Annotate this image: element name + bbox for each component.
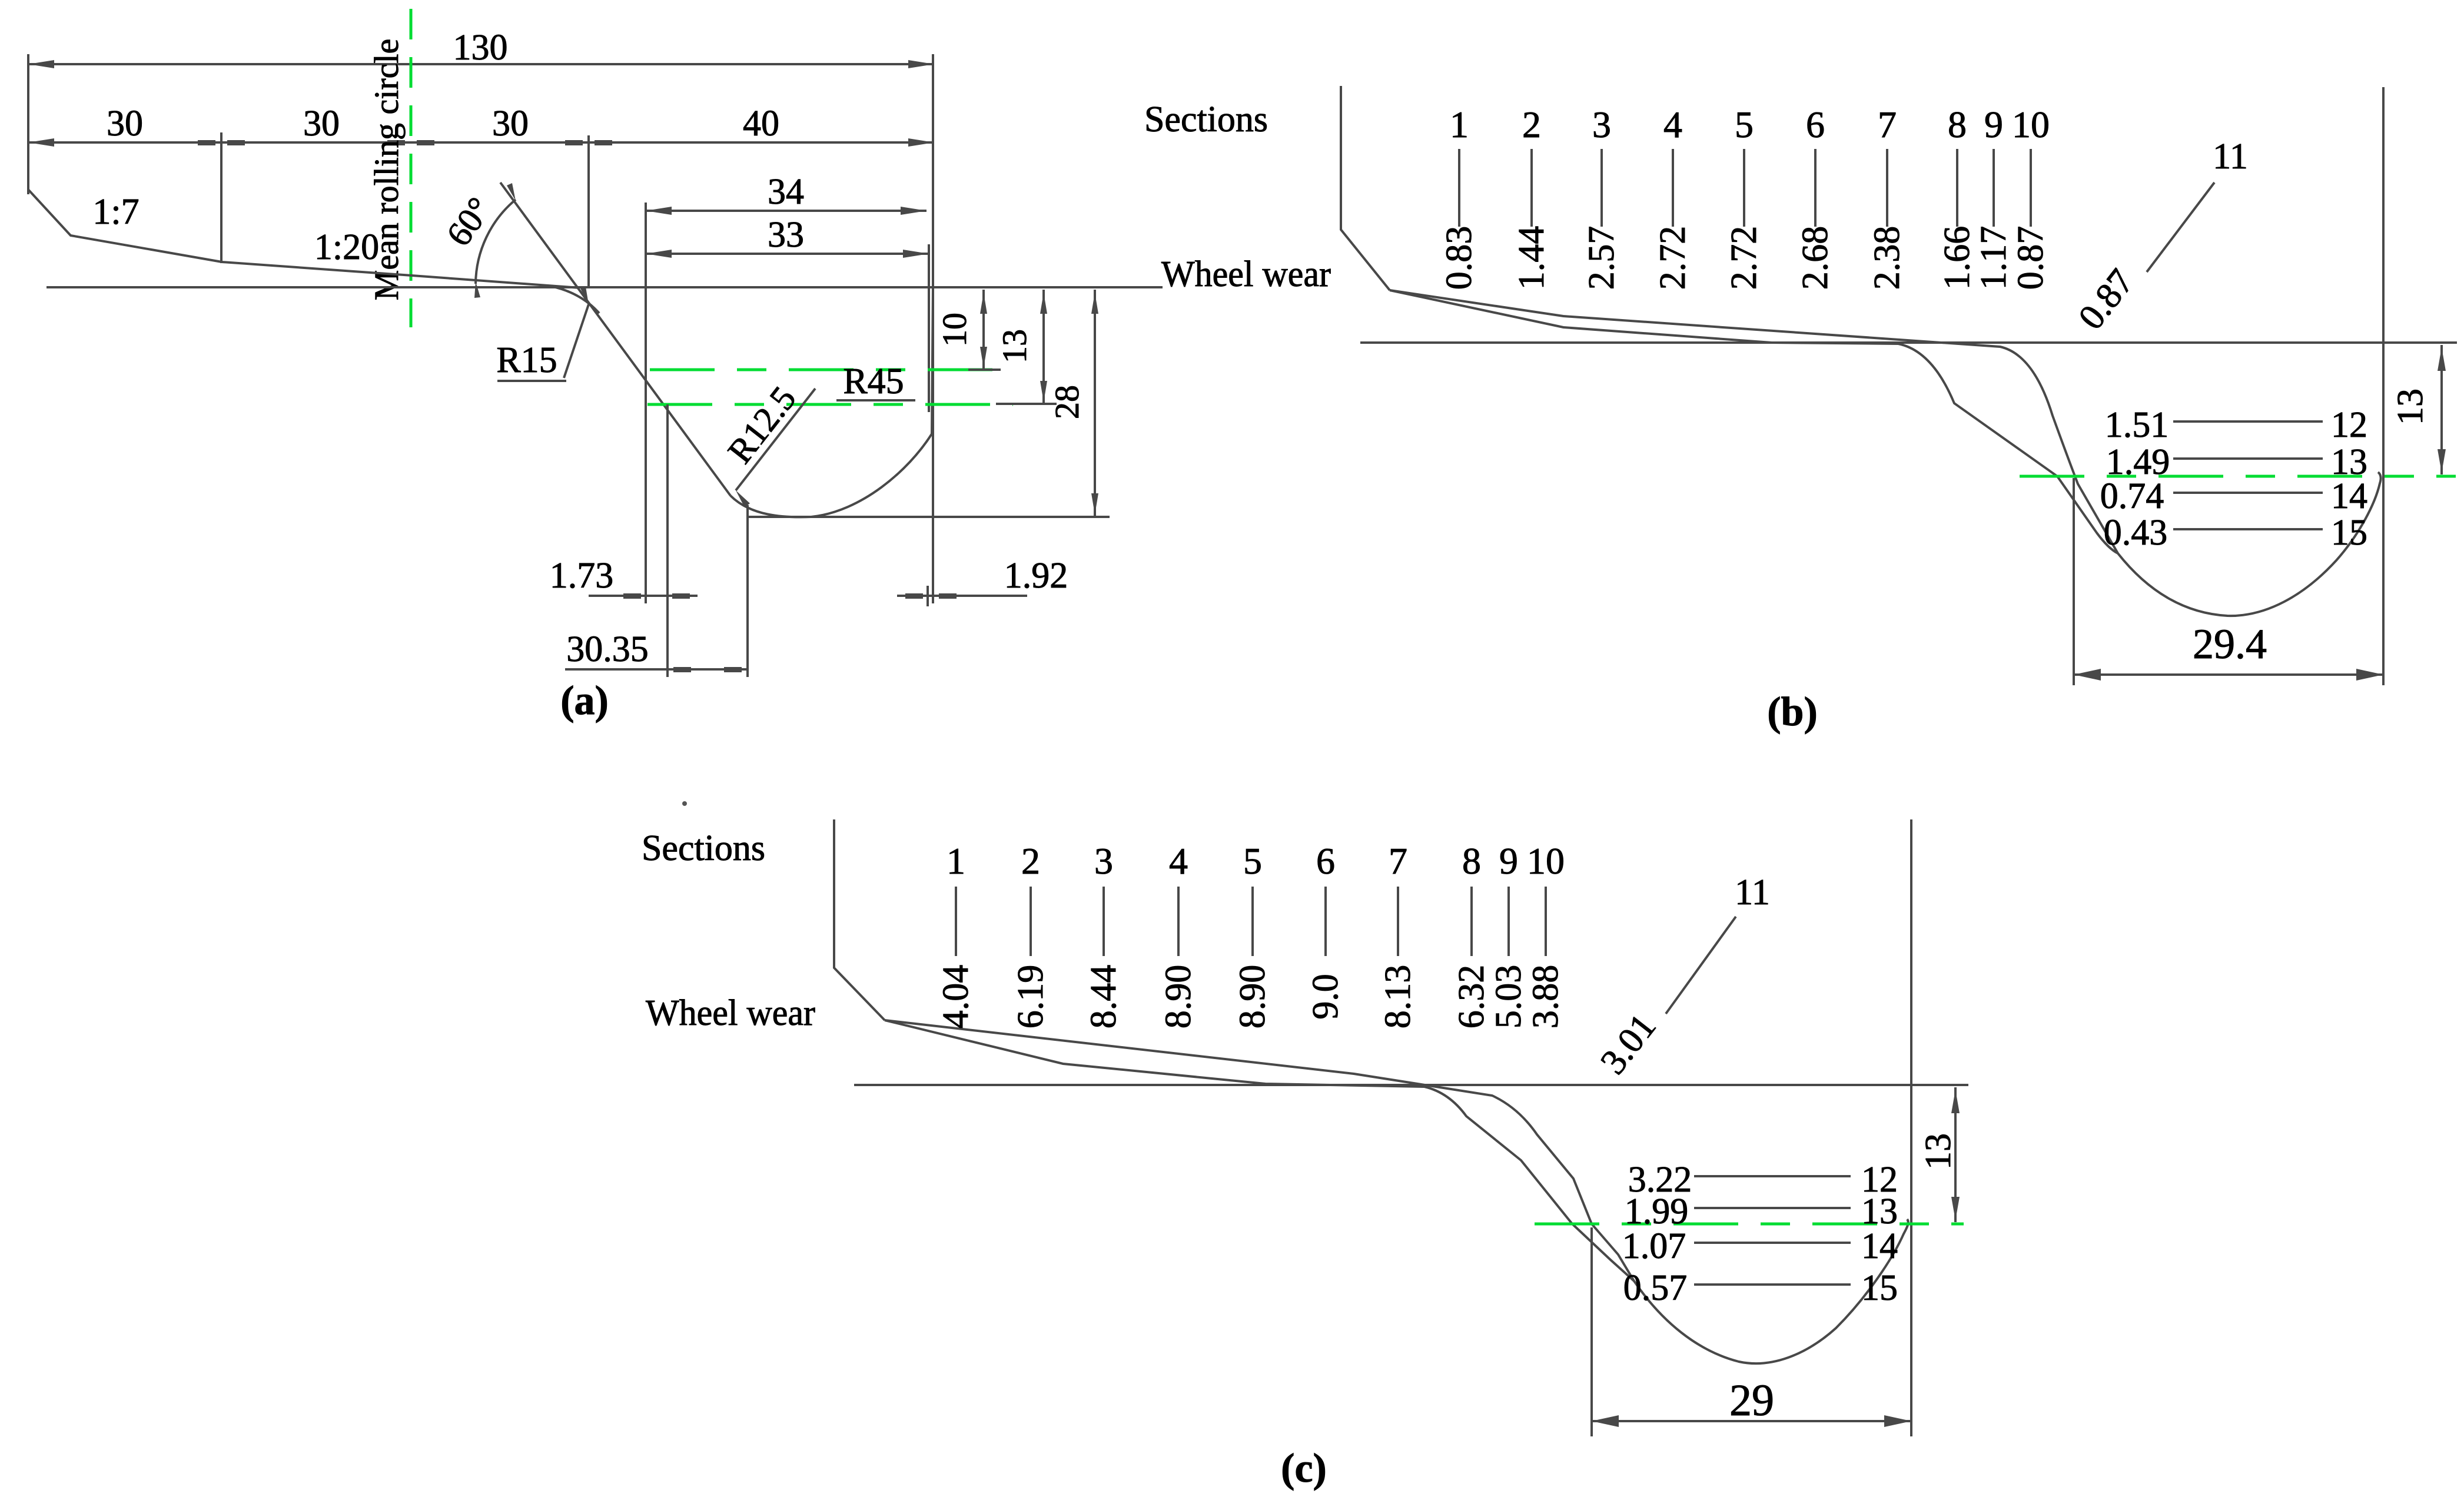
svg-text:2.57: 2.57	[1582, 226, 1622, 290]
c original tread line	[885, 1020, 1634, 1281]
wheel tread 1:20 line	[222, 262, 580, 288]
b right extension line	[2382, 87, 2385, 685]
svg-text:5.03: 5.03	[1489, 965, 1529, 1029]
svg-text:9: 9	[1499, 840, 1518, 882]
svg-text:1:20: 1:20	[314, 227, 379, 267]
c section tick lines	[955, 887, 957, 956]
svg-text:8: 8	[1948, 104, 1967, 145]
svg-text:Wheel wear: Wheel wear	[1161, 254, 1331, 294]
extension line x1578	[928, 244, 930, 412]
svg-text:29: 29	[1729, 1376, 1774, 1425]
stray mark	[682, 801, 687, 806]
svg-text:5: 5	[1243, 840, 1262, 882]
svg-text:(b): (b)	[1767, 689, 1818, 735]
svg-text:0.43: 0.43	[2104, 513, 2168, 553]
svg-text:10: 10	[2012, 104, 2050, 145]
dim line 130	[28, 63, 934, 65]
svg-text:1: 1	[1450, 104, 1469, 145]
flange bottom tangent line	[748, 516, 1110, 518]
svg-text:0.57: 0.57	[1623, 1268, 1688, 1308]
svg-text:2.38: 2.38	[1867, 226, 1907, 290]
extension line x376	[220, 132, 223, 263]
svg-text:0.83: 0.83	[1439, 226, 1479, 290]
dim line 30.35	[565, 668, 748, 671]
extension line right x1585	[932, 54, 934, 603]
svg-text:1.17: 1.17	[1974, 226, 2014, 290]
svg-text:13: 13	[1861, 1192, 1898, 1232]
b dim 13	[2440, 345, 2443, 474]
svg-text:29.4: 29.4	[2193, 620, 2267, 668]
svg-text:Sections: Sections	[642, 828, 765, 868]
svg-text:Sections: Sections	[1144, 99, 1268, 140]
svg-text:11: 11	[2213, 137, 2248, 177]
dim line 1.92	[897, 595, 1027, 597]
svg-text:3: 3	[1592, 104, 1611, 145]
flange bottom curve	[730, 290, 933, 517]
extension line x1000	[587, 135, 590, 287]
svg-text:3: 3	[1094, 840, 1113, 882]
svg-text:6.32: 6.32	[1452, 965, 1492, 1029]
dim line 34	[646, 210, 927, 212]
svg-text:34: 34	[768, 172, 804, 212]
b datum line	[1360, 341, 2457, 344]
svg-text:4.04: 4.04	[936, 965, 976, 1029]
svg-text:7: 7	[1389, 840, 1407, 882]
dim line 30-30-30-40	[28, 141, 934, 144]
b original tread line	[1390, 290, 2118, 553]
svg-text:3.88: 3.88	[1526, 965, 1566, 1029]
dim line 33	[646, 253, 929, 255]
svg-text:6.19: 6.19	[1011, 965, 1051, 1029]
extension line x1134	[666, 404, 669, 677]
svg-text:7: 7	[1878, 104, 1897, 145]
b section tick lines	[1458, 149, 1460, 227]
svg-text:130: 130	[453, 28, 508, 68]
datum line	[47, 286, 1163, 288]
svg-text:2: 2	[1021, 840, 1040, 882]
svg-text:R15: R15	[496, 340, 557, 380]
svg-text:2.72: 2.72	[1653, 226, 1693, 290]
svg-text:2.68: 2.68	[1795, 226, 1835, 290]
dim 13	[1042, 290, 1045, 404]
svg-text:30: 30	[492, 104, 529, 144]
green line 10mm	[650, 369, 996, 371]
b dim line 29.4	[2074, 673, 2383, 676]
c dim 29 extension left	[1590, 1227, 1593, 1436]
b leader 11	[2147, 182, 2214, 272]
svg-text:4: 4	[1169, 840, 1188, 882]
extension line x1097	[645, 203, 647, 603]
svg-text:1.44: 1.44	[1512, 226, 1552, 290]
svg-text:9: 9	[1984, 104, 2003, 145]
svg-text:8: 8	[1462, 840, 1481, 882]
mean rolling circle line	[410, 9, 413, 327]
b flange bottom curve	[2118, 472, 2381, 616]
svg-text:5: 5	[1735, 104, 1754, 145]
c wheel back edge	[834, 819, 885, 1020]
svg-text:8.44: 8.44	[1084, 965, 1124, 1029]
svg-text:2: 2	[1522, 104, 1541, 145]
extension line x1270	[746, 505, 749, 677]
c worn tread line	[885, 1020, 1634, 1281]
c dim line 29	[1592, 1420, 1911, 1422]
b wheel back edge	[1341, 86, 1390, 290]
svg-text:12: 12	[2331, 405, 2367, 445]
c datum line	[854, 1084, 1968, 1086]
svg-text:13: 13	[995, 329, 1034, 363]
svg-text:14: 14	[2331, 476, 2367, 516]
svg-text:40: 40	[743, 104, 779, 144]
svg-text:1.07: 1.07	[1622, 1226, 1686, 1266]
b green line	[2020, 475, 2456, 478]
R15 fillet curve	[547, 286, 599, 313]
svg-text:1.66: 1.66	[1937, 226, 1977, 290]
svg-text:1: 1	[947, 840, 965, 882]
c flange bottom curve	[1634, 1219, 1908, 1363]
svg-text:30: 30	[303, 104, 340, 144]
svg-text:6: 6	[1806, 104, 1825, 145]
svg-text:Wheel wear: Wheel wear	[646, 993, 815, 1033]
svg-text:4: 4	[1663, 104, 1682, 145]
svg-text:1.99: 1.99	[1625, 1192, 1689, 1232]
svg-text:1.51: 1.51	[2105, 405, 2169, 445]
wheel profile left chamfer	[28, 190, 222, 262]
c right extension line	[1910, 819, 1912, 1436]
c dim 13	[1954, 1087, 1957, 1222]
svg-text:10: 10	[1527, 840, 1565, 882]
green line 13mm	[647, 403, 1013, 406]
svg-text:30.35: 30.35	[566, 629, 649, 669]
svg-text:28: 28	[1048, 385, 1086, 419]
svg-text:0.87: 0.87	[2011, 226, 2051, 290]
svg-text:(c): (c)	[1281, 1446, 1327, 1491]
svg-text:1:7: 1:7	[92, 192, 139, 232]
dim 10	[982, 290, 985, 370]
b dim 29.4 extension left	[2073, 478, 2075, 685]
svg-text:11: 11	[1735, 872, 1770, 912]
dim line 1.73	[589, 595, 698, 597]
60deg arc	[476, 200, 516, 284]
svg-text:15: 15	[1861, 1268, 1898, 1308]
svg-text:8.13: 8.13	[1378, 965, 1418, 1029]
svg-text:8.90: 8.90	[1158, 965, 1198, 1029]
svg-text:0.74: 0.74	[2100, 476, 2164, 516]
svg-text:13: 13	[2390, 389, 2430, 425]
svg-text:6: 6	[1316, 840, 1335, 882]
svg-text:8.90: 8.90	[1233, 965, 1273, 1029]
svg-text:9.0: 9.0	[1306, 974, 1346, 1020]
svg-text:14: 14	[1861, 1226, 1898, 1266]
c leader 11	[1666, 917, 1736, 1014]
svg-text:10: 10	[935, 313, 974, 347]
svg-text:15: 15	[2331, 513, 2367, 553]
c green line	[1535, 1223, 1964, 1226]
svg-text:(a): (a)	[560, 678, 609, 724]
svg-text:30: 30	[107, 104, 143, 144]
svg-text:R45: R45	[843, 361, 904, 401]
b worn tread line	[1390, 290, 2118, 553]
dim 28	[1094, 290, 1096, 517]
svg-text:33: 33	[768, 215, 804, 255]
extension line left edge	[27, 54, 29, 194]
svg-text:13: 13	[1918, 1133, 1958, 1170]
svg-text:1.73: 1.73	[550, 556, 614, 596]
flange face 60deg line	[500, 182, 730, 496]
extension line x1576	[927, 586, 929, 606]
svg-text:2.72: 2.72	[1724, 226, 1764, 290]
svg-text:1.92: 1.92	[1004, 556, 1068, 596]
